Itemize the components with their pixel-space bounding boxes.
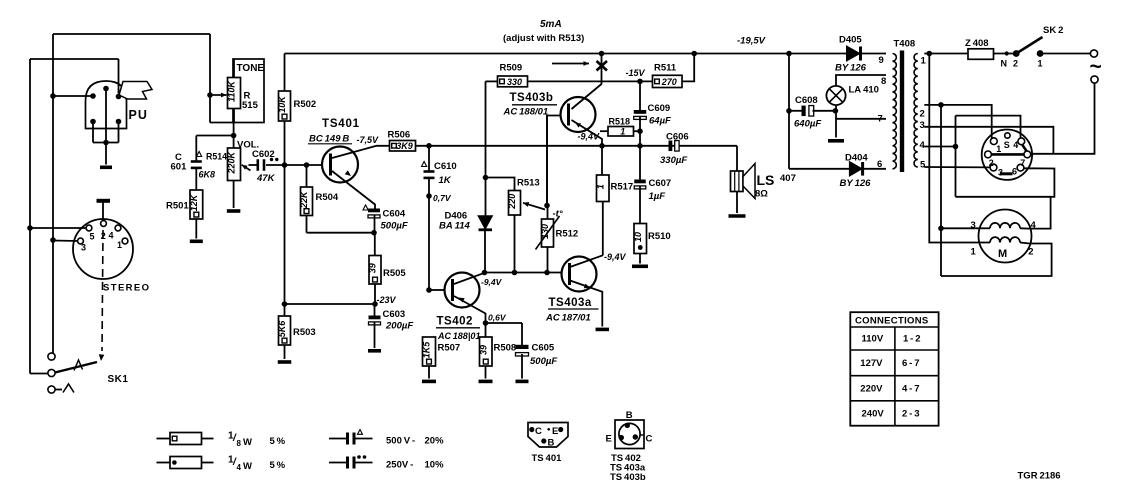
wire: R518 left lead — [600, 130, 608, 132]
potentiometer R513 220 — [509, 191, 521, 216]
svg-text:C603: C603 — [383, 309, 406, 320]
svg-text:CONNECTIONS: CONNECTIONS — [855, 315, 929, 326]
wire: tap to motor pin 3 — [941, 227, 980, 229]
svg-text:-23V: -23V — [377, 295, 397, 305]
junction: bias node (R513 tap) — [483, 175, 489, 181]
svg-text:64µF: 64µF — [649, 116, 671, 127]
svg-text:AC 188|01: AC 188|01 — [437, 331, 480, 341]
wire: PU lower-right pin drop — [118, 122, 120, 143]
wire: C603 top stem — [374, 304, 376, 316]
wire: pin4 top route to S4 pin 4 — [956, 116, 1021, 138]
TS403b base wire — [547, 116, 561, 206]
junction: R518 at C609 line — [637, 128, 643, 134]
svg-text:330µF: 330µF — [660, 155, 687, 166]
junction: output rail at emitter — [599, 143, 605, 149]
S4 link 4-7 — [1022, 144, 1027, 151]
svg-text:1: 1 — [971, 247, 977, 258]
svg-text:C602: C602 — [252, 149, 275, 160]
svg-text:39: 39 — [368, 263, 378, 273]
svg-text:LA 410: LA 410 — [849, 85, 879, 96]
wire: R504 bottom stem — [306, 216, 308, 233]
svg-text:127V: 127V — [860, 358, 883, 369]
svg-text:BY 126: BY 126 — [840, 178, 872, 189]
wire: wiper to C602 — [249, 164, 258, 166]
SK2 terminal N — [1005, 51, 1009, 55]
svg-text:10K: 10K — [277, 95, 287, 113]
svg-text:STEREO: STEREO — [103, 283, 150, 294]
svg-text:1: 1 — [595, 184, 605, 189]
junction: motor 3 tap — [938, 226, 944, 232]
capacitor C602 — [256, 159, 259, 171]
wire: C608 branch to D404 — [789, 168, 850, 170]
svg-text:5K6: 5K6 — [277, 320, 287, 338]
wire: TONE frame to VOL pot — [233, 123, 235, 149]
svg-text:BA 114: BA 114 — [439, 221, 470, 232]
svg-text:8: 8 — [881, 76, 886, 87]
TS401 package mid dot — [547, 428, 550, 431]
wire: lamp top to pin 8 — [836, 75, 886, 86]
lamp LA410 — [826, 86, 845, 105]
resistor R504 22K — [301, 187, 313, 216]
svg-text:0,6V: 0,6V — [488, 313, 507, 323]
wire: 0,7V node to TS402 base — [428, 196, 430, 290]
wire: C608 to lamp node — [813, 110, 836, 112]
svg-text:250V -: 250V - — [386, 460, 413, 471]
wire: pin 3 run — [924, 127, 1053, 154]
selector S4 circle — [982, 130, 1032, 180]
svg-text:220K: 220K — [227, 150, 237, 174]
svg-text:6: 6 — [877, 159, 882, 170]
svg-text:20%: 20% — [425, 436, 445, 447]
ground (R508) — [479, 380, 493, 384]
svg-text:M: M — [998, 248, 1007, 260]
resistor R501 12K — [190, 190, 203, 219]
capacitor C603 200uF — [369, 316, 381, 320]
wire: rail B to STEREO pin 5 — [30, 227, 87, 229]
TS403b emitter lead — [572, 120, 603, 146]
wire: node to R505 — [374, 233, 376, 256]
wire: R502 top stem to supply rail — [284, 54, 286, 92]
svg-text:500µF: 500µF — [530, 356, 557, 367]
wire: C610 to 0,7V node — [428, 178, 430, 197]
svg-text:TS 403b: TS 403b — [610, 472, 646, 483]
svg-text:(adjust with R513): (adjust with R513) — [503, 33, 584, 44]
wire: pin4 riser — [955, 116, 957, 197]
wire: R501 bottom stem — [195, 219, 197, 239]
TS403a emitter arrow (NPN) — [584, 284, 590, 289]
svg-text:3K9: 3K9 — [396, 141, 413, 151]
svg-text:TS401: TS401 — [322, 118, 360, 130]
resistor R507 1K5 — [423, 337, 436, 366]
wire: pin 2 run — [924, 105, 991, 138]
connections table frame — [850, 312, 938, 426]
wire: motor riser — [940, 105, 942, 276]
svg-text:1µF: 1µF — [649, 191, 666, 202]
TS402 collector lead — [454, 273, 485, 284]
ground (lamp) — [828, 139, 844, 143]
wire: C606 to speaker — [736, 146, 738, 171]
junction: R503 top node — [282, 301, 288, 307]
svg-text:6K8: 6K8 — [199, 170, 216, 180]
capacitor C606 330uF — [669, 141, 673, 152]
S4 key notch — [1000, 172, 1013, 175]
S4 pin 7 — [1024, 151, 1031, 158]
capacitor C608 640uF — [802, 106, 806, 117]
svg-text:C: C — [646, 434, 653, 445]
svg-text:TS403a: TS403a — [549, 297, 592, 309]
junction: lamp bottom node — [833, 108, 839, 114]
svg-text:22K: 22K — [299, 190, 309, 209]
C602 250V marker dots — [270, 158, 273, 161]
svg-text:39: 39 — [478, 345, 488, 355]
capacitor C601 — [191, 160, 202, 163]
STEREO pin 4 — [115, 225, 121, 231]
svg-text:C609: C609 — [648, 103, 671, 114]
transistor TS403a body — [562, 257, 597, 292]
svg-text:220: 220 — [507, 194, 517, 210]
svg-text:TONE: TONE — [237, 63, 265, 74]
svg-text:R511: R511 — [654, 63, 677, 74]
svg-text:SK 2: SK 2 — [1043, 25, 1063, 36]
svg-text:500µF: 500µF — [381, 221, 408, 232]
ground (R514) — [227, 209, 241, 213]
svg-text:C604: C604 — [383, 209, 406, 220]
motor M circle — [979, 210, 1032, 263]
C604 500V marker — [363, 205, 368, 210]
svg-text:-15V: -15V — [626, 68, 646, 78]
resistor R505 39 — [369, 256, 381, 285]
STEREO pin 5 — [86, 225, 92, 231]
capacitor C607 1uF — [634, 180, 646, 184]
wire: emitter node to C605 — [486, 322, 523, 324]
wire: R513 bottom stem — [514, 215, 516, 273]
svg-text:R504: R504 — [316, 192, 339, 203]
svg-text:R512: R512 — [556, 229, 579, 240]
SK2 contact 2 — [1013, 50, 1020, 57]
svg-text:R517: R517 — [611, 182, 634, 193]
svg-text:C607: C607 — [649, 178, 672, 189]
junction: PU bottom tie — [103, 140, 109, 146]
junction: R502 bottom at base wire — [282, 162, 288, 168]
svg-text:5 %: 5 % — [270, 436, 286, 447]
svg-text:8Ω: 8Ω — [755, 189, 768, 200]
package outline TS402/403 — [615, 420, 644, 449]
svg-text:-7,5V: -7,5V — [357, 135, 380, 145]
wire: R518 right lead — [634, 130, 641, 132]
C601 500V marker — [197, 152, 202, 157]
wire: rail A to PU left pin — [53, 95, 93, 97]
supply rail -19.5V — [285, 53, 847, 55]
package outline TS401 — [528, 423, 568, 448]
wire: motor 4 branch — [1030, 197, 1051, 229]
SK1 lever — [55, 362, 97, 373]
wire: tone-wiper net top run — [53, 33, 210, 35]
wire: C607 to R510 — [639, 187, 641, 224]
capacitor C604 500uF — [368, 209, 380, 213]
junction: TS402 base node — [426, 287, 432, 293]
TS401 package pin C dot — [529, 427, 534, 432]
junction: wiper node — [544, 203, 550, 209]
resistor R502 10K — [279, 91, 291, 121]
svg-text:3: 3 — [998, 168, 1003, 178]
svg-text:2 - 3: 2 - 3 — [902, 409, 920, 420]
svg-text:B: B — [548, 437, 555, 448]
wire: R512 top stem — [547, 206, 549, 220]
svg-text:240V: 240V — [862, 409, 885, 420]
svg-text:C608: C608 — [795, 95, 818, 106]
svg-text:TS403b: TS403b — [510, 92, 554, 104]
svg-text:R501: R501 — [166, 201, 189, 212]
junction: C608 left — [786, 108, 792, 114]
transistor TS403b body — [561, 97, 596, 132]
svg-text:4: 4 — [109, 231, 114, 241]
resistor R518 1 — [608, 127, 634, 137]
svg-text:601: 601 — [171, 162, 188, 173]
svg-text:220V: 220V — [860, 384, 883, 395]
wire: R507 bottom stem — [428, 366, 430, 379]
wire: C605 top stem — [521, 323, 523, 345]
PU pin left — [90, 93, 96, 99]
wire: tone bottom tie — [210, 122, 233, 124]
resistor R517 1 — [597, 175, 610, 202]
wire: rail to C610 — [428, 146, 430, 171]
wire: pin 1 to Z408 — [924, 53, 968, 55]
wire: D404 to pin 6 — [864, 168, 886, 170]
wire: R511 to supply rail — [682, 54, 694, 82]
svg-text:3: 3 — [920, 120, 925, 131]
TS401 package pin E dot — [558, 427, 563, 432]
resistor R503 5K6 — [279, 316, 291, 345]
svg-text:12K: 12K — [189, 193, 199, 211]
rule under TS402 — [436, 327, 480, 329]
wire: C604 bottom stem — [374, 215, 376, 233]
svg-text:4: 4 — [1031, 220, 1037, 231]
wire: motor bottom loop — [941, 244, 1052, 277]
wire: R503 bottom stem — [284, 345, 286, 359]
wire: pin4 bottom route — [956, 168, 1055, 197]
svg-text:270: 270 — [661, 77, 677, 87]
svg-text:R505: R505 — [383, 268, 406, 279]
svg-text:1: 1 — [117, 240, 122, 250]
transistor TS402 body — [445, 273, 480, 308]
svg-text:-9,4V: -9,4V — [578, 132, 601, 142]
wire: left rail B vertical — [29, 59, 31, 374]
wire: speaker to ground — [736, 192, 738, 214]
svg-text:4: 4 — [237, 463, 242, 472]
svg-text:10: 10 — [633, 232, 643, 242]
wire: R504 top stem — [306, 165, 308, 187]
svg-text:TGR 2186: TGR 2186 — [1018, 471, 1061, 482]
STEREO pin 2 — [101, 221, 107, 227]
TS402 package pin B dot — [625, 423, 630, 428]
svg-text:200µF: 200µF — [385, 321, 413, 332]
svg-text:S: S — [1004, 140, 1010, 150]
wire: lamp bottom to ground — [835, 105, 837, 137]
svg-text:SK1: SK1 — [108, 374, 129, 385]
TS403a emitter lead — [570, 281, 602, 327]
ground (R501) — [190, 240, 203, 244]
svg-text:110K: 110K — [227, 80, 237, 102]
svg-text:1: 1 — [996, 144, 1001, 154]
wire: rail to R517 — [601, 146, 603, 175]
svg-text:407: 407 — [780, 173, 796, 184]
transistor TS401 body — [322, 147, 358, 183]
dashed link arrowhead — [99, 354, 105, 361]
SK1 contact 3 chassis mark — [63, 384, 74, 393]
connector STEREO circle — [73, 219, 133, 279]
annotation arrow to X — [552, 63, 589, 65]
svg-text:N: N — [1001, 59, 1008, 69]
legend capacitor 500V symbol — [329, 438, 346, 440]
wire: R502 bottom stem / feedback riser — [284, 121, 286, 304]
svg-text:1K: 1K — [439, 175, 452, 186]
ground (R510) — [632, 264, 648, 268]
S4 pin 2 — [985, 151, 992, 158]
C610 500V marker — [422, 162, 427, 167]
svg-text:4 - 7: 4 - 7 — [902, 384, 920, 395]
ground (LS407) — [729, 214, 746, 218]
junction: rail A to PU left pin — [50, 93, 56, 99]
TONE frame box — [233, 59, 264, 123]
S4 pin 6 — [1017, 164, 1024, 171]
TS401 collector lead — [332, 146, 390, 158]
SK1 contact 3 — [48, 386, 55, 393]
wire: PU center pin to ground — [105, 89, 107, 165]
svg-text:5: 5 — [920, 160, 926, 171]
wire: rail to C607 — [639, 146, 641, 180]
PU pin top-center — [103, 86, 109, 92]
svg-text:W: W — [243, 437, 252, 448]
SK1 lever notch — [74, 360, 83, 371]
TS401 emitter arrow (NPN) — [345, 170, 351, 176]
svg-text:8: 8 — [237, 439, 242, 448]
rule under TS403b — [512, 104, 557, 106]
wire: R514 bottom stem — [233, 181, 235, 209]
measuring point X — [597, 61, 608, 71]
svg-text:5mA: 5mA — [540, 19, 562, 30]
S4 pin 1 — [990, 138, 997, 145]
svg-text:W: W — [243, 461, 252, 472]
wire: C605 bottom stem — [521, 354, 523, 379]
wire: R515 bottom stem — [233, 109, 235, 123]
wire: R503 top stem — [284, 304, 286, 316]
wire: rail A to STEREO pin 3 — [53, 240, 78, 243]
junction: pin 4 node — [953, 144, 959, 150]
capacitor C609 64uF — [634, 110, 647, 114]
PU pin lower-right — [116, 119, 122, 125]
svg-text:515: 515 — [242, 100, 259, 111]
svg-text:1 - 2: 1 - 2 — [903, 334, 921, 345]
svg-text:R518: R518 — [609, 117, 631, 127]
svg-text:-t°: -t° — [553, 209, 563, 220]
svg-text:4: 4 — [1013, 140, 1018, 150]
wire: left rail B top run (PU right pin net) — [30, 58, 119, 60]
TS403b emitter arrow (PNP) — [575, 123, 581, 128]
mains terminal upper — [1090, 50, 1097, 57]
svg-text:5: 5 — [90, 232, 95, 242]
wire: R517 to TS403a collector — [602, 202, 604, 256]
svg-text:T408: T408 — [894, 39, 916, 50]
resistor R508 39 — [480, 337, 493, 366]
motor winding 1-2 — [981, 242, 991, 244]
svg-text:3: 3 — [971, 220, 976, 231]
junction: pin 1 node — [927, 51, 933, 57]
ground (PU) — [100, 166, 112, 170]
junction: R512 bottom at lower rail — [544, 270, 550, 276]
svg-text:PU: PU — [129, 108, 148, 122]
svg-text:10%: 10% — [425, 460, 445, 471]
ground (TS403a emitter) — [596, 328, 610, 332]
wire: PU pins bottom tie — [93, 142, 119, 144]
svg-text:2: 2 — [989, 158, 994, 168]
svg-text:-9,4V: -9,4V — [481, 277, 503, 287]
svg-text:D405: D405 — [839, 35, 862, 46]
PU pin lower-left — [90, 119, 96, 125]
svg-text:2: 2 — [920, 109, 925, 120]
wire: mains lower drop — [1031, 83, 1095, 154]
STEREO pin 1 — [122, 238, 128, 244]
svg-text:0,7V: 0,7V — [433, 193, 452, 203]
chassis bar above STEREO — [97, 199, 111, 203]
svg-text:110V: 110V — [862, 334, 884, 345]
svg-text:3: 3 — [81, 243, 86, 253]
SK2 lever — [1016, 37, 1042, 54]
junction: -23V node — [372, 301, 378, 307]
svg-text:E: E — [552, 426, 558, 437]
svg-text:C606: C606 — [666, 132, 689, 143]
svg-text:5 %: 5 % — [270, 460, 286, 471]
svg-text:1: 1 — [620, 127, 625, 137]
junction: 0,6V node — [483, 320, 489, 326]
wire: C601 to R501 — [195, 169, 197, 191]
PU pin right — [116, 94, 122, 100]
TS401 package pin B dot — [541, 438, 546, 443]
svg-text:1: 1 — [1038, 59, 1043, 69]
thermistor R512 130 — [542, 219, 554, 247]
svg-text:TS 401: TS 401 — [532, 453, 563, 464]
wire: R515 top stem — [233, 59, 235, 78]
dashed link STEREO to SK1 — [102, 230, 103, 351]
svg-text:1: 1 — [921, 56, 927, 67]
SK2 contact 1 — [1037, 50, 1044, 57]
wire: chassis to STEREO pin 2 — [102, 203, 104, 222]
wire: pin 7 to lamp/ground node — [836, 118, 886, 120]
junction: D406+TS402 collector — [482, 270, 488, 276]
transformer T408 secondary winding (1-5) — [914, 54, 918, 168]
svg-text:6 - 7: 6 - 7 — [902, 358, 920, 369]
wire: PU right pin riser — [118, 59, 120, 94]
SK1 contact 1 — [48, 353, 55, 360]
TS402 emitter arrow (PNP) — [459, 298, 465, 303]
wire: R512 bottom stem — [547, 247, 549, 273]
svg-text:6: 6 — [1012, 167, 1017, 177]
wire: D406 to lower rail — [484, 231, 486, 273]
TS402 package pin C dot — [633, 434, 638, 439]
transformer T408 core — [900, 51, 904, 173]
junction: C609 top — [637, 79, 643, 85]
svg-text:7: 7 — [1020, 158, 1025, 168]
TS401 emitter lead — [332, 171, 375, 209]
R514 wiper arrow — [242, 165, 251, 171]
junction: C610 top — [426, 143, 432, 149]
wire: C608 left lead — [789, 110, 802, 112]
wire: R510 bottom stem — [639, 254, 641, 264]
potentiometer R514 220K (volume) — [228, 148, 241, 181]
svg-text:E: E — [606, 434, 612, 445]
svg-text:4: 4 — [920, 140, 926, 151]
transformer T408 primary winding (9-6) — [893, 54, 897, 169]
legend capacitor 250V symbol — [329, 462, 346, 464]
